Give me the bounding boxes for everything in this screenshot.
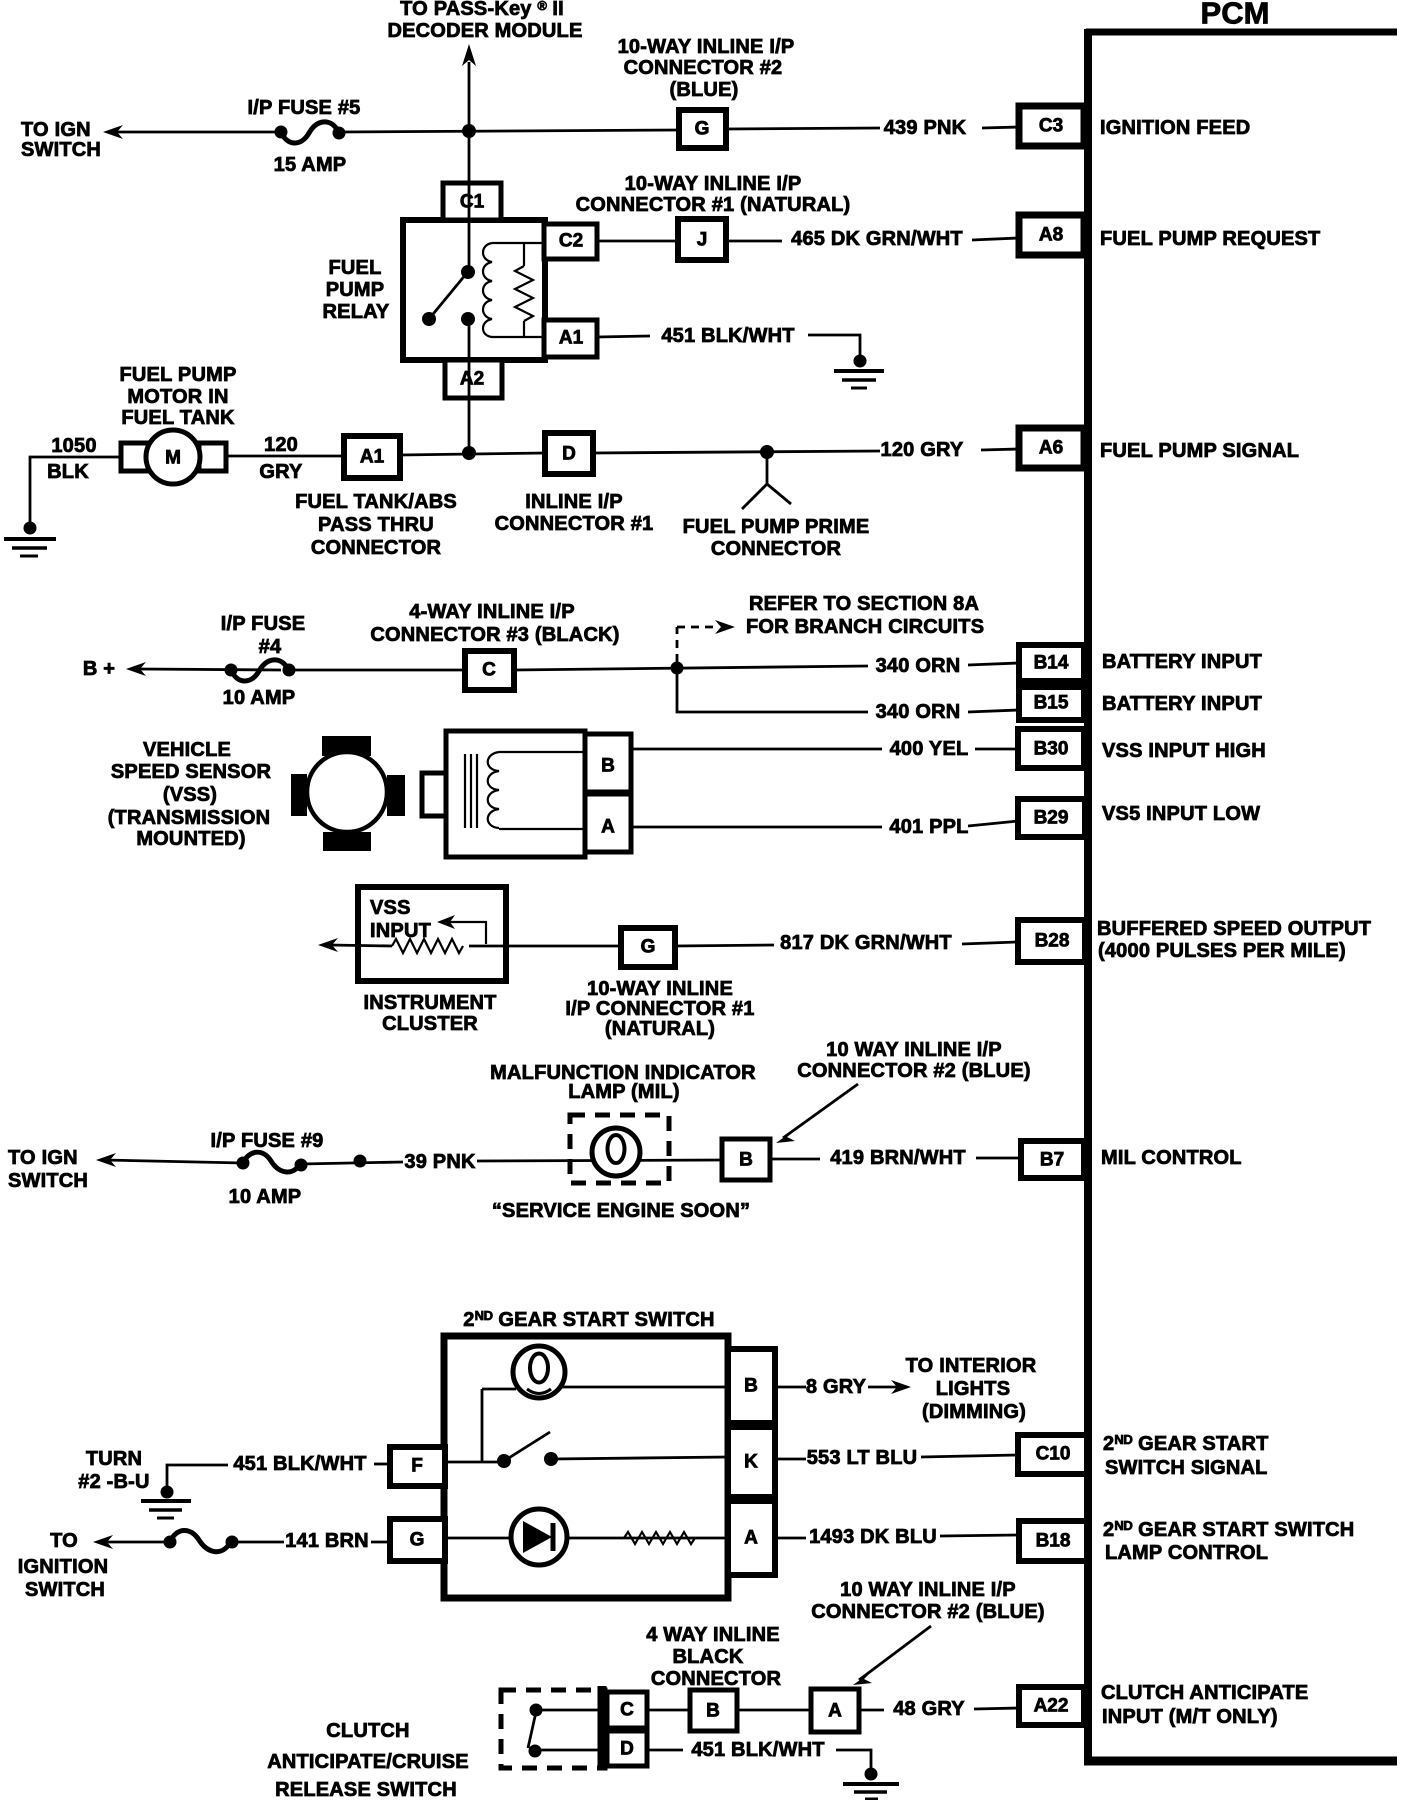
svg-text:CONNECTOR #2 (BLUE): CONNECTOR #2 (BLUE) [797,1060,1030,1082]
svg-text:C3: C3 [1039,116,1063,137]
svg-text:K: K [744,1452,758,1473]
svg-text:SWITCH: SWITCH [8,1170,88,1192]
relay coil [483,243,544,337]
svg-text:D: D [562,444,576,465]
connector C10 [1018,1435,1087,1474]
label 10-way inline I/P connector #1 (natural) [576,173,851,216]
svg-text:G: G [641,937,656,958]
label fuel pump motor in fuel tank [120,364,237,429]
svg-text:CONNECTOR: CONNECTOR [711,538,842,560]
svg-text:I/P CONNECTOR #1: I/P CONNECTOR #1 [565,998,754,1020]
instrument cluster box [358,887,506,981]
svg-text:451 BLK/WHT: 451 BLK/WHT [233,1453,366,1475]
svg-text:A1: A1 [559,328,584,349]
svg-text:FUEL: FUEL [328,257,381,279]
svg-text:419 BRN/WHT: 419 BRN/WHT [830,1147,966,1169]
svg-text:A6: A6 [1039,438,1063,459]
svg-text:A1: A1 [360,447,385,468]
svg-text:B: B [706,1701,720,1722]
ground (clutch switch) [843,1768,899,1800]
svg-text:340 ORN: 340 ORN [876,701,961,723]
svg-text:(DIMMING): (DIMMING) [922,1401,1026,1423]
clutch connector bar [598,1686,607,1770]
svg-text:CONNECTOR #1: CONNECTOR #1 [495,513,654,535]
pointer arrow to B connector [776,1084,858,1143]
fuse (141 BRN circuit) [164,1530,239,1551]
svg-text:B29: B29 [1034,808,1069,829]
svg-text:DECODER MODULE: DECODER MODULE [387,20,582,42]
VSS pin B [585,734,631,792]
svg-text:TO IGN: TO IGN [21,119,91,141]
svg-text:RELEASE SWITCH: RELEASE SWITCH [275,1779,457,1800]
svg-text:I/P FUSE #5: I/P FUSE #5 [248,97,361,119]
wire: 141 BRN row [102,1541,170,1544]
arrow to ign switch [103,125,123,139]
relay pin A2 [445,360,502,398]
svg-text:(VSS): (VSS) [163,784,217,806]
svg-text:A2: A2 [460,369,484,390]
inline connector C (4-way #3) [465,651,514,690]
svg-text:VSS INPUT HIGH: VSS INPUT HIGH [1102,740,1266,762]
relay pin A1 [544,320,597,357]
svg-text:465 DK GRN/WHT: 465 DK GRN/WHT [791,228,963,250]
inline connector A (10 way #2) [811,1689,859,1732]
svg-text:PUMP: PUMP [326,279,385,301]
svg-text:A: A [828,1701,842,1722]
svg-text:401 PPL: 401 PPL [889,816,968,838]
label vehicle speed sensor [108,739,272,850]
wire to PASS-Key decoder [468,62,471,131]
svg-text:FUEL PUMP SIGNAL: FUEL PUMP SIGNAL [1100,440,1299,462]
clutch pin C [607,1692,647,1728]
svg-text:A: A [744,1528,758,1549]
cluster internal resistor [392,939,463,953]
svg-text:INSTRUMENT: INSTRUMENT [363,992,496,1014]
svg-text:CONNECTOR: CONNECTOR [651,1668,782,1690]
svg-text:LAMP (MIL): LAMP (MIL) [568,1081,680,1103]
svg-text:C1: C1 [460,192,485,213]
arrow B+ [126,662,146,676]
svg-text:TO INTERIOR: TO INTERIOR [906,1355,1037,1377]
wire: fuel pump request row [597,238,1019,241]
svg-text:A22: A22 [1034,1696,1069,1717]
svg-text:SWITCH: SWITCH [21,139,101,161]
svg-text:340 ORN: 340 ORN [876,655,961,677]
VSS pin A [585,794,631,852]
gear switch lamp [482,1346,728,1462]
svg-text:8 GRY: 8 GRY [806,1376,867,1398]
cluster wiper arrow [437,915,486,944]
wire: A1 to D [400,453,545,455]
arrow out of cluster [318,938,338,952]
svg-text:INPUT: INPUT [370,920,431,942]
svg-text:C: C [620,1700,634,1721]
svg-text:2ND GEAR START SWITCH: 2ND GEAR START SWITCH [1103,1518,1354,1542]
svg-text:(TRANSMISSION: (TRANSMISSION [108,807,271,829]
junction node battery feed [671,662,684,675]
svg-text:48 GRY: 48 GRY [893,1698,965,1720]
svg-text:#2 -B-U: #2 -B-U [78,1471,149,1493]
svg-text:#4: #4 [259,636,282,658]
svg-text:CONNECTOR #2: CONNECTOR #2 [624,57,783,79]
wire: D to PCM A6 [593,451,880,453]
svg-text:“SERVICE ENGINE SOON”: “SERVICE ENGINE SOON” [492,1200,750,1222]
wire: 1493 DK BLU row [775,1537,806,1540]
arrow to ignition switch [93,1535,113,1549]
wire: buffered speed output row [330,945,392,946]
gear switch lamp diode and resistor [444,1509,728,1565]
svg-text:G: G [695,119,710,140]
svg-text:817 DK GRN/WHT: 817 DK GRN/WHT [780,932,952,954]
clutch switch dashed box [501,1690,605,1768]
wire: VSS B to B30 [631,748,882,751]
svg-text:PASS THRU: PASS THRU [318,514,434,536]
svg-text:400 YEL: 400 YEL [890,738,969,760]
svg-text:A: A [601,817,615,838]
svg-text:GRY: GRY [259,461,303,483]
svg-text:FUEL PUMP PRIME: FUEL PUMP PRIME [683,516,870,538]
inline connector G (top) [679,110,726,148]
junction node at ignition feed [462,124,476,138]
fuel pump relay box [403,220,545,360]
connector B29 [1018,799,1085,837]
svg-text:M: M [165,448,181,469]
svg-text:INLINE I/P: INLINE I/P [525,491,623,513]
svg-text:10 WAY INLINE I/P: 10 WAY INLINE I/P [840,1579,1016,1601]
clutch switch contacts [528,1704,607,1758]
svg-text:LIGHTS: LIGHTS [936,1378,1011,1400]
connector A1 fuel tank/abs pass thru [344,436,400,478]
svg-text:1493 DK BLU: 1493 DK BLU [809,1526,937,1548]
svg-text:SWITCH: SWITCH [25,1579,105,1601]
inline connector G (buffered speed) [621,928,675,967]
svg-text:4 WAY INLINE: 4 WAY INLINE [646,1624,780,1646]
svg-text:CONNECTOR: CONNECTOR [311,537,442,559]
wire through C1 to switch arm [468,185,471,272]
svg-text:B: B [744,1376,758,1397]
wire: 553 LT BLU row [775,1458,806,1461]
fuse I/P fuse #5 15 amp [248,97,361,176]
fuel pump motor M [121,430,226,484]
svg-text:VS5 INPUT LOW: VS5 INPUT LOW [1102,803,1260,825]
connector A22 [1019,1687,1084,1725]
connector B15 [1019,687,1084,720]
svg-text:BLACK: BLACK [673,1646,744,1668]
svg-text:(NATURAL): (NATURAL) [605,1018,715,1040]
wire: D to ground [647,1749,683,1752]
svg-text:G: G [410,1530,425,1551]
inline connector D [545,433,593,474]
2nd gear start switch box [444,1336,728,1598]
svg-text:39 PNK: 39 PNK [404,1151,476,1173]
svg-text:(BLUE): (BLUE) [670,79,739,101]
svg-text:120: 120 [264,434,298,456]
gear switch contacts [444,1432,728,1468]
svg-text:REFER TO SECTION 8A: REFER TO SECTION 8A [749,593,979,615]
svg-text:CONNECTOR #2 (BLUE): CONNECTOR #2 (BLUE) [811,1601,1044,1623]
svg-text:2ND GEAR START SWITCH: 2ND GEAR START SWITCH [463,1308,714,1332]
junction node at relay A2 drop [462,446,476,460]
svg-text:MOTOR IN: MOTOR IN [127,386,228,408]
MIL bulb [592,1128,640,1176]
svg-text:C: C [482,660,496,681]
clutch pin D [607,1731,647,1766]
svg-text:10-WAY INLINE I/P: 10-WAY INLINE I/P [625,173,802,195]
svg-text:ANTICIPATE/CRUISE: ANTICIPATE/CRUISE [267,1751,469,1773]
relay pin C1 [443,183,501,220]
switch pin A [728,1501,775,1575]
svg-text:TURN: TURN [86,1448,142,1470]
label TO PASS-Key II DECODER MODULE [387,0,582,42]
svg-text:TO IGN: TO IGN [8,1147,78,1169]
switch pin G [390,1519,445,1561]
svg-text:PCM: PCM [1201,0,1270,31]
svg-text:B: B [601,756,615,777]
inline connector J [678,219,726,260]
switch pin B [728,1349,775,1423]
svg-text:J: J [697,230,708,251]
wire: 1050 BLK to motor [30,457,121,525]
PCM module outline [1084,29,1397,1761]
svg-text:4-WAY INLINE I/P: 4-WAY INLINE I/P [409,601,574,623]
svg-text:141 BRN: 141 BRN [285,1530,369,1552]
fuel pump prime connector symbol [742,452,791,509]
arrow to PASS-Key [462,44,476,66]
relay label [323,257,390,323]
ground (fuel pump motor) [4,522,56,557]
svg-text:B30: B30 [1034,739,1069,760]
svg-text:(4000 PULSES PER MILE): (4000 PULSES PER MILE) [1098,940,1346,962]
svg-text:B +: B + [83,658,115,680]
wire: 451 BLK/WHT to F [167,1465,228,1489]
svg-text:IGNITION FEED: IGNITION FEED [1100,117,1250,139]
junction node 39 PNK [354,1155,367,1168]
svg-text:439 PNK: 439 PNK [884,117,967,139]
svg-text:10-WAY INLINE: 10-WAY INLINE [587,978,733,1000]
svg-text:120 GRY: 120 GRY [881,439,964,461]
svg-text:SPEED SENSOR: SPEED SENSOR [111,761,272,783]
svg-text:B15: B15 [1034,693,1069,714]
fuse I/P fuse #4 10 amp [221,613,306,709]
relay switch contacts [422,265,475,326]
svg-text:451 BLK/WHT: 451 BLK/WHT [661,325,794,347]
connector C3 [1019,106,1084,146]
svg-text:FUEL PUMP: FUEL PUMP [120,364,237,386]
svg-text:10 WAY INLINE I/P: 10 WAY INLINE I/P [826,1039,1002,1061]
connector B14 [1019,645,1084,681]
svg-text:F: F [411,1456,423,1477]
svg-text:FUEL TANK/ABS: FUEL TANK/ABS [295,491,457,513]
ground (turn feed) [141,1486,191,1519]
MIL dashed box [570,1115,669,1183]
svg-text:MIL CONTROL: MIL CONTROL [1101,1147,1242,1169]
wire: A to A22 [859,1709,884,1712]
svg-text:VSS: VSS [370,897,411,919]
svg-text:A8: A8 [1039,225,1063,246]
svg-text:VEHICLE: VEHICLE [143,739,231,761]
svg-text:10-WAY INLINE I/P: 10-WAY INLINE I/P [618,36,795,58]
svg-text:C10: C10 [1036,1444,1071,1465]
connector B28 [1018,920,1085,962]
junction node fuel pump prime [760,445,774,459]
svg-text:D: D [620,1739,634,1760]
relay pin C2 [544,224,597,259]
svg-text:B7: B7 [1040,1150,1064,1171]
svg-text:CONNECTOR #3 (BLACK): CONNECTOR #3 (BLACK) [370,624,619,646]
svg-text:SWITCH SIGNAL: SWITCH SIGNAL [1105,1457,1268,1479]
arrow to interior lights [891,1380,911,1394]
svg-text:BUFFERED SPEED OUTPUT: BUFFERED SPEED OUTPUT [1097,918,1371,940]
wire fuse to C [289,669,465,672]
svg-text:IGNITION: IGNITION [18,1556,109,1578]
svg-text:FUEL PUMP REQUEST: FUEL PUMP REQUEST [1100,228,1320,250]
svg-text:10 AMP: 10 AMP [223,687,296,709]
svg-text:B: B [739,1150,753,1171]
wire: junction down to relay C1 [468,131,471,185]
svg-text:BATTERY INPUT: BATTERY INPUT [1102,693,1262,715]
svg-text:RELAY: RELAY [323,301,390,323]
wire to ground [808,335,860,358]
svg-text:CLUSTER: CLUSTER [382,1013,478,1035]
connector B18 [1019,1521,1087,1561]
svg-text:15 AMP: 15 AMP [274,154,347,176]
connector B7 [1021,1141,1084,1178]
wire: VSS A to B29 [631,826,882,829]
wire: motor to A1 pass-thru [226,455,344,458]
svg-text:CONNECTOR #1 (NATURAL): CONNECTOR #1 (NATURAL) [576,194,851,216]
svg-text:BLK: BLK [47,461,89,483]
arrow to ign switch (MIL row) [96,1153,116,1167]
svg-text:C2: C2 [559,231,583,252]
connector B30 [1018,729,1084,768]
wire: B+ feed row [140,669,281,670]
svg-text:LAMP CONTROL: LAMP CONTROL [1105,1542,1268,1564]
inline connector B (4 way black) [690,1690,737,1731]
svg-text:I/P FUSE: I/P FUSE [221,613,306,635]
svg-text:1050: 1050 [51,435,96,457]
wire through A2 down to pump signal row [468,320,471,453]
pointer arrow to A connector [853,1626,931,1685]
svg-text:B28: B28 [1035,931,1070,952]
svg-text:INPUT (M/T ONLY): INPUT (M/T ONLY) [1102,1706,1278,1728]
VSS sensor body [422,731,585,857]
svg-text:553 LT BLU: 553 LT BLU [807,1447,918,1469]
svg-text:FOR BRANCH CIRCUITS: FOR BRANCH CIRCUITS [746,616,984,638]
switch pin F [390,1447,445,1486]
svg-text:CLUTCH ANTICIPATE: CLUTCH ANTICIPATE [1101,1682,1308,1704]
svg-text:FUEL TANK: FUEL TANK [121,407,235,429]
svg-text:451 BLK/WHT: 451 BLK/WHT [691,1739,824,1761]
wire: ignition feed row to PCM [726,127,1019,129]
svg-text:TO: TO [50,1530,78,1552]
wire: 8 GRY dimming row [775,1386,806,1389]
svg-text:BATTERY INPUT: BATTERY INPUT [1102,651,1262,673]
svg-text:B14: B14 [1034,653,1069,674]
wire: relay A1 to 451 BLK/WHT ground [597,336,650,337]
svg-text:I/P FUSE #9: I/P FUSE #9 [211,1130,324,1152]
svg-text:B18: B18 [1036,1531,1071,1552]
inline connector B (MIL) [722,1139,770,1180]
wire: B to A [737,1709,811,1712]
svg-text:MOUNTED): MOUNTED) [136,828,245,850]
relay coil parallel resistor [515,243,533,337]
connector A6 [1019,428,1084,468]
VSS sensor rotor [291,736,405,851]
label 10-way inline I/P connector #2 (blue) [618,36,795,101]
dashed branch reference [677,620,735,662]
wire: junction down to B15 row [677,668,868,712]
svg-text:CLUTCH: CLUTCH [326,1720,409,1742]
wire: top ignition feed horizontal [112,130,679,132]
switch pin K [728,1427,775,1497]
wire: C to B [647,1709,690,1712]
wire C to junction and B14 [514,666,868,670]
fuse I/P fuse #9 10 amp [211,1130,324,1208]
ground (relay A1 circuit) [834,355,884,389]
wire: MIL control row [105,1160,243,1163]
connector A8 [1019,215,1084,255]
svg-text:10 AMP: 10 AMP [229,1186,302,1208]
